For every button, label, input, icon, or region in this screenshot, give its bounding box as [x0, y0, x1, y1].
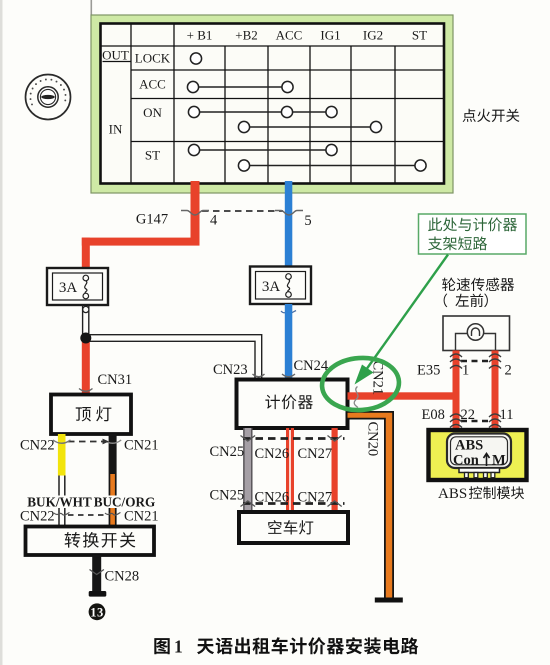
svg-text:BUC/ORG: BUC/ORG — [94, 495, 156, 510]
label CN23 — [213, 362, 248, 378]
wheel speed sensor box — [443, 316, 510, 351]
label BUC/ORG — [94, 495, 156, 510]
wire: white branch, junction to meter CN23 — [86, 335, 262, 380]
svg-text:+ B1: + B1 — [187, 28, 213, 43]
short-circuit note box (green) — [419, 214, 527, 254]
inline connector tilde on white wire at CN23 — [253, 374, 265, 377]
ignition switch combination table — [101, 24, 445, 184]
inline connector double chevron on pin1 wire at E35 — [450, 354, 462, 369]
label CN28 — [105, 569, 140, 585]
svg-text:3A: 3A — [262, 279, 281, 295]
svg-text:CN24: CN24 — [294, 358, 329, 374]
inline connector chevron on CN27 wire (lower) — [328, 501, 342, 507]
wire: blue ACC feed, table to fuse — [285, 181, 293, 267]
inline connector chevron on gray wire (upper) — [241, 436, 256, 442]
fuse F1 3A (left) — [47, 268, 108, 305]
changeover switch box (zhuanhuan kaiguan) — [26, 527, 155, 556]
svg-text:13: 13 — [90, 605, 104, 619]
inline connector chevron on CN27 wire (upper) — [328, 436, 342, 442]
svg-text:CN22: CN22 — [20, 509, 55, 525]
inline connector chevron on CN28 wire — [90, 570, 104, 575]
switch contacts row ST lower: +B2-ST — [238, 160, 426, 171]
switch contacts row ON: +B1-ACC-IG1 — [188, 106, 337, 117]
pin number 22 — [461, 407, 476, 423]
svg-text:1: 1 — [462, 363, 469, 379]
svg-text:CN20: CN20 — [365, 422, 381, 457]
wire: red sensor pin2 drop to ABS — [492, 351, 499, 431]
svg-text:5: 5 — [304, 213, 311, 229]
scan artifact line above frame corner — [91, 0, 93, 16]
inline connector tilde on white wire (lower CN22) — [54, 513, 70, 516]
label E08 — [422, 407, 445, 423]
label CN25 (lower) — [210, 488, 245, 504]
taxi meter box (jijiaqi) — [237, 380, 348, 429]
inline connector chevron on gray wire (lower) — [241, 501, 256, 507]
label CN31 — [98, 372, 133, 388]
connector dashed line below meter — [243, 437, 345, 440]
wire number 5 — [304, 213, 311, 229]
svg-text:ON: ON — [143, 105, 162, 120]
label CN21 (lower left pair) — [124, 509, 159, 525]
label: ignition switch (dianhuo kaiguan) — [463, 109, 520, 122]
figure caption — [154, 637, 418, 657]
inline connector tilde on red wire at G147 — [181, 211, 209, 216]
wire: orange BUC/ORG segment to switch — [109, 474, 117, 527]
svg-text:IG1: IG1 — [320, 28, 340, 43]
svg-text:4: 4 — [210, 213, 218, 229]
label: wheel speed sensor (lunsu chuanganqi) — [442, 278, 514, 308]
label CN22 (lower) — [20, 509, 55, 525]
label G147 — [136, 212, 168, 228]
label CN25 (upper) — [210, 444, 245, 460]
svg-text:ABS: ABS — [455, 438, 483, 454]
connector CN22/CN21 dashed separation line — [68, 441, 107, 443]
green highlight ellipse around CN21 point — [320, 355, 400, 412]
label CN20 (rotated) — [365, 422, 381, 457]
switch contacts row ON lower: +B2-IG2 — [238, 121, 381, 132]
ignition key cylinder symbol — [26, 75, 71, 120]
inline connector tilde on orange wire (lower CN21) — [105, 513, 121, 516]
wire: white link fuse F1 to junction — [83, 305, 89, 338]
ABS control module box — [429, 430, 527, 480]
wire: red CN21 meter to sensor circuit — [348, 392, 457, 399]
dome light box (dingdeng) — [51, 395, 131, 435]
ignition switch green surround panel — [91, 15, 453, 193]
pin number 2 — [505, 363, 512, 379]
switch contacts row ST: +B1-IG1 — [188, 144, 337, 155]
pin number 1 — [462, 363, 469, 379]
svg-text:ST: ST — [412, 28, 427, 43]
wire: yellow CN22 drop from dome light — [58, 434, 66, 476]
svg-text:CN25: CN25 — [210, 444, 245, 460]
label CN21 (rotated, at meter output) — [370, 361, 386, 396]
connector E35 dashed line — [461, 360, 490, 363]
svg-text:3A: 3A — [59, 280, 78, 296]
inline connector tilde on red wire at CN31 — [79, 389, 93, 392]
wire: red drop junction to dome light CN31 — [82, 334, 90, 395]
svg-text:CN31: CN31 — [98, 372, 133, 388]
svg-text:CN26: CN26 — [255, 446, 290, 462]
wire: black CN28 drop from switch — [92, 555, 101, 592]
label CN27 (upper) — [298, 446, 333, 462]
green annotation arrow to CN21 point — [355, 255, 449, 385]
wire: orange/black CN20 meter to ground — [348, 411, 395, 598]
inline connector tilde on blue wire at G147 — [275, 211, 303, 216]
svg-text:OUT: OUT — [102, 48, 129, 63]
connector G147 dashed separation line — [202, 210, 283, 212]
wire: white BUK/WHT segment to switch — [59, 476, 65, 527]
svg-text:G147: G147 — [136, 212, 168, 228]
fuse F2 3A (right) — [250, 267, 311, 305]
pin number 11 — [500, 407, 514, 423]
inline connector chevron on black wire at CN21 — [103, 439, 122, 445]
connector dashed line above empty-lamp — [243, 502, 345, 505]
label CN26 (lower) — [255, 490, 290, 506]
wire: black CN21 drop from dome light — [109, 434, 117, 474]
wire: red sensor pin1 drop to ABS — [453, 351, 460, 431]
inline connector tilde on blue wire at CN24 — [282, 374, 295, 377]
svg-text:CN27: CN27 — [298, 490, 333, 506]
wire: red +B1 feed, table to fuse (with left jog) — [82, 181, 200, 269]
svg-text:CN27: CN27 — [298, 446, 333, 462]
inline connector wave on red CN21 wire — [354, 387, 358, 408]
connector E08 dashed line — [461, 420, 490, 423]
scan edge shading at left border — [0, 0, 3, 665]
switch contact: LOCK row +B1 — [190, 53, 201, 64]
connector CN22/CN21 dashed line (lower, at switch) — [68, 514, 107, 516]
svg-text:2: 2 — [505, 363, 512, 379]
junction node at fuse output — [80, 333, 91, 344]
wire: red CN27 drop from meter — [332, 428, 338, 512]
ground reference mark 13 (circled) — [89, 603, 106, 620]
label CN27 (lower) — [298, 490, 333, 506]
label: ABS control module — [438, 486, 524, 502]
svg-text:11: 11 — [500, 407, 514, 423]
svg-text:ACC: ACC — [276, 28, 303, 43]
inline connector chevron on yellow wire — [53, 440, 71, 443]
label BUK/WHT — [27, 495, 92, 510]
label CN22 (upper) — [20, 438, 55, 454]
inline connector tilde on blue wire below fuse — [281, 311, 296, 314]
vacant (empty-car) lamp box (kongchedeng) — [239, 512, 348, 543]
label CN24 — [294, 358, 329, 374]
svg-text:CN28: CN28 — [105, 569, 140, 585]
inline connector double chevron on pin2 wire at E35 — [489, 354, 501, 369]
svg-text:IG2: IG2 — [363, 28, 383, 43]
label CN26 (upper) — [255, 446, 290, 462]
svg-text:LOCK: LOCK — [135, 51, 171, 66]
svg-text:Con: Con — [453, 453, 479, 469]
svg-text:CN22: CN22 — [20, 438, 55, 454]
svg-text:BUK/WHT: BUK/WHT — [27, 495, 92, 510]
svg-text:E35: E35 — [417, 363, 440, 379]
wire number 4 — [210, 213, 218, 229]
inline connector double chevron on pin 22 wire at E08 — [450, 414, 462, 428]
svg-text:ACC: ACC — [139, 77, 166, 92]
wire: red twin CN26 drop from meter — [286, 428, 294, 512]
ground bar for CN20 wire — [375, 598, 403, 603]
label CN21 (upper left pair) — [124, 438, 159, 454]
label E35 — [417, 363, 440, 379]
svg-text:E08: E08 — [422, 407, 445, 423]
svg-text:CN21: CN21 — [370, 361, 386, 396]
svg-text:1: 1 — [174, 637, 183, 657]
wire: gray CN25 drop from meter — [243, 428, 252, 512]
table row labels OUT IN LOCK ACC ON ST — [102, 48, 171, 163]
chassis ground bar for switch — [89, 591, 107, 597]
switch contact row ACC: +B1 to ACC — [187, 81, 293, 92]
svg-text:CN25: CN25 — [210, 488, 245, 504]
wire: blue fuse F2 to meter CN24 — [285, 304, 293, 380]
svg-text:CN21: CN21 — [124, 438, 159, 454]
svg-text:M: M — [492, 453, 506, 469]
svg-text:ST: ST — [145, 148, 160, 163]
svg-text:ABS: ABS — [438, 486, 467, 502]
inline connector double chevron on pin 11 wire at E08 — [489, 414, 501, 428]
svg-text:+B2: +B2 — [235, 28, 258, 43]
svg-text:CN21: CN21 — [124, 509, 159, 525]
svg-text:CN23: CN23 — [213, 362, 248, 378]
svg-text:IN: IN — [109, 122, 123, 137]
table header labels +B1 +B2 ACC IG1 IG2 ST — [187, 28, 428, 43]
